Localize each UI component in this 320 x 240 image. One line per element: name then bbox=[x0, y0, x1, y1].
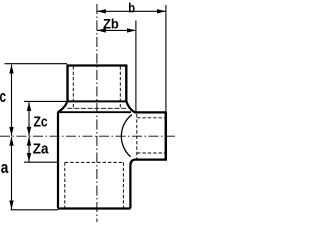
dimension a line bbox=[11, 137, 13, 210]
left flare slope bbox=[58, 101, 67, 112]
extension line Za socket depth bbox=[24, 161, 58, 163]
dimension a arrows bbox=[9, 137, 13, 210]
dimension b line bbox=[97, 10, 166, 12]
bottom socket bore left hidden line bbox=[64, 162, 66, 207]
dimension c arrows bbox=[9, 65, 13, 136]
extension line branch end bbox=[165, 5, 167, 111]
branch bore top hidden line bbox=[137, 117, 165, 119]
extension line top face bbox=[5, 63, 68, 65]
dimension Zb arrows bbox=[97, 28, 136, 32]
right flare slope into branch top bbox=[126, 101, 165, 113]
horizontal centerline bbox=[0, 135, 177, 137]
body flare rim line bbox=[58, 111, 131, 113]
body left edge bbox=[57, 112, 59, 209]
svg-text:c: c bbox=[0, 87, 6, 106]
dimension Zc line bbox=[28, 102, 30, 136]
svg-text:a: a bbox=[1, 158, 9, 177]
extension line bottom face bbox=[11, 209, 59, 211]
top socket collar bottom edge bbox=[67, 100, 128, 102]
extension line Zb socket depth bbox=[135, 21, 137, 112]
dimension Zc arrows bbox=[27, 102, 31, 136]
top socket bore left hidden line bbox=[72, 66, 74, 108]
dimension Za line bbox=[28, 137, 30, 162]
bottom socket bore right hidden line bbox=[122, 162, 124, 207]
dimension Za arrows bbox=[27, 137, 31, 162]
branch socket depth hidden line bbox=[136, 114, 138, 159]
extension line Zc socket depth bbox=[24, 100, 67, 102]
svg-text:Za: Za bbox=[33, 140, 49, 157]
branch body intersection arc bbox=[121, 115, 131, 157]
top socket outline bbox=[68, 66, 127, 102]
svg-text:b: b bbox=[128, 0, 135, 15]
dimension Zb line bbox=[97, 29, 136, 31]
body bottom edge bbox=[58, 207, 131, 209]
dimension b arrows bbox=[97, 9, 166, 13]
top socket bore right hidden line bbox=[119, 66, 121, 108]
svg-text:Zc: Zc bbox=[34, 114, 48, 131]
branch bore bottom hidden line bbox=[137, 152, 165, 154]
branch bottom edge and lower corner into body bbox=[130, 160, 165, 209]
bottom socket depth hidden line bbox=[65, 161, 124, 163]
svg-text:Zb: Zb bbox=[103, 15, 119, 31]
top socket bore shoulder hidden line bbox=[68, 107, 127, 109]
vertical centerline bbox=[96, 4, 98, 222]
dimension c line bbox=[11, 65, 13, 136]
branch end cap bbox=[165, 111, 167, 160]
